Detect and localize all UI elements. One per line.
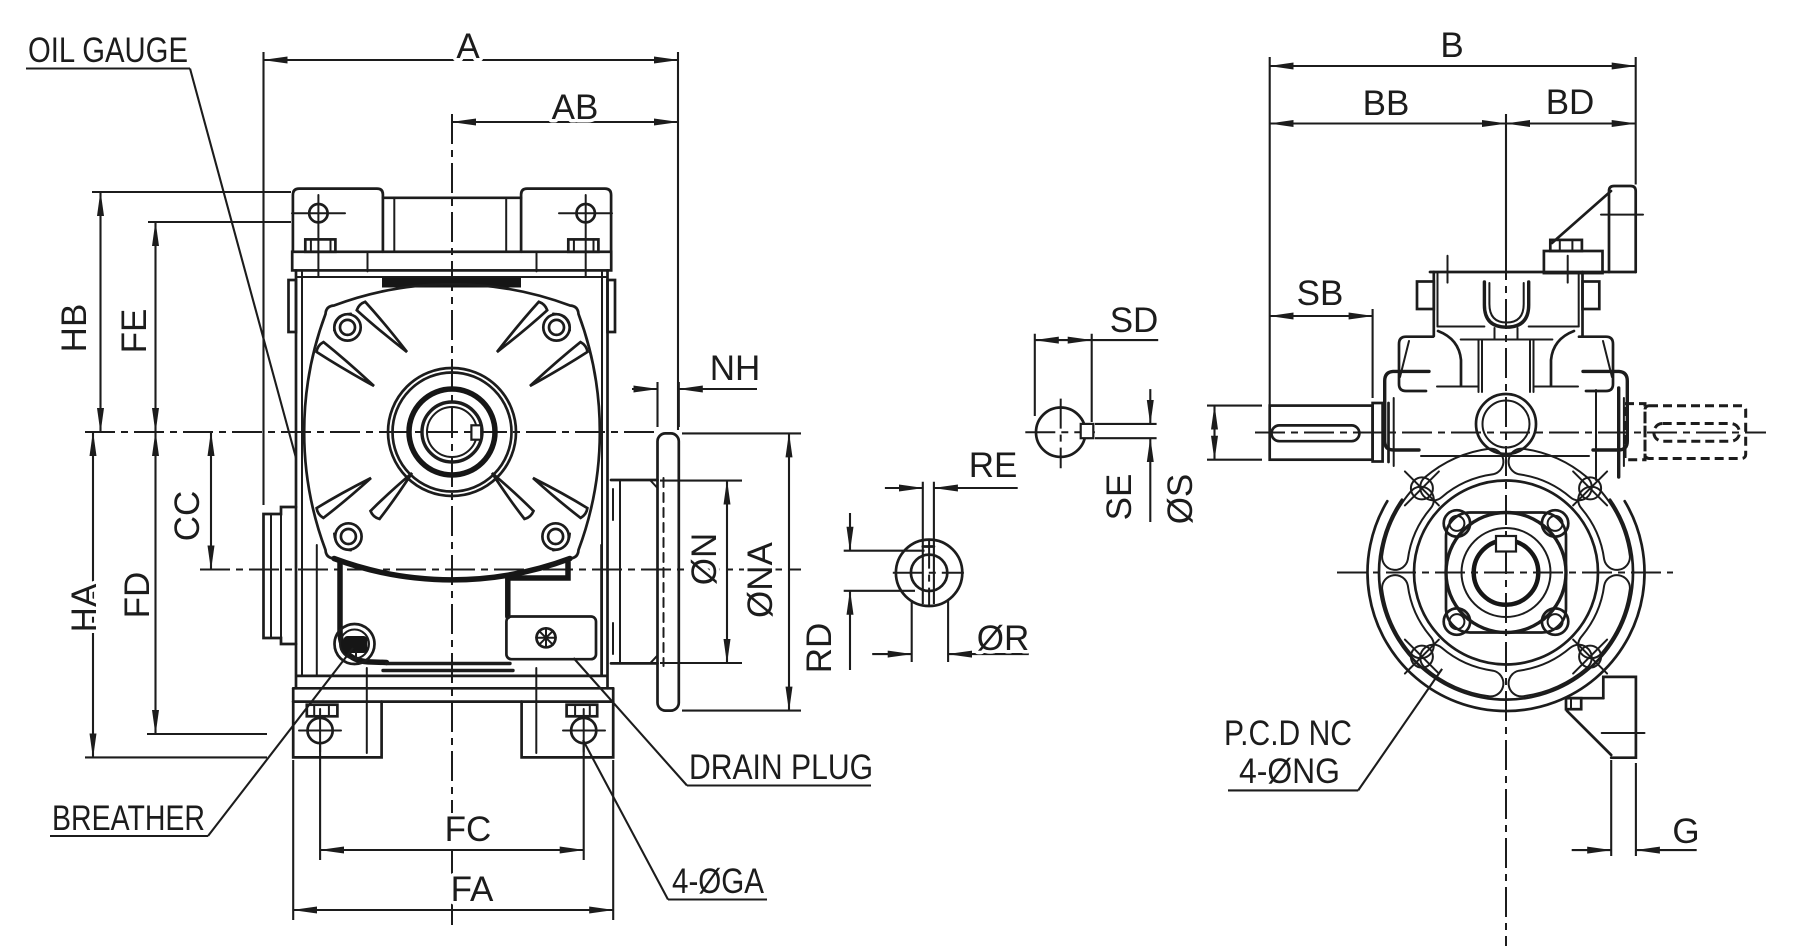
- top flange plate: [292, 252, 611, 272]
- svg-text:RD: RD: [800, 623, 839, 674]
- dimension ØS: [1161, 406, 1262, 525]
- dimension FC: [320, 742, 584, 860]
- svg-text:ØN: ØN: [685, 533, 724, 586]
- output flange plate (side): [658, 433, 679, 710]
- input bushing circle: [422, 402, 482, 462]
- housing bottom edge: [297, 675, 607, 678]
- oil cap boss (shield): [1484, 282, 1528, 327]
- optional input shaft (right, dashed): [1625, 404, 1746, 460]
- right foot: [522, 702, 614, 758]
- svg-text:A: A: [456, 27, 480, 66]
- right wall tab: [608, 280, 616, 332]
- svg-text:NH: NH: [710, 349, 761, 388]
- side housing left lobes: [1385, 337, 1433, 466]
- svg-text:BB: BB: [1363, 84, 1410, 123]
- input shaft collar: [1373, 403, 1383, 462]
- cover corner inner line upper-right: [553, 314, 570, 331]
- top mounting bracket flag: [1552, 186, 1643, 272]
- housing left wall: [296, 270, 302, 688]
- output hub inner circle: [1462, 528, 1551, 617]
- output shaft section outer circle: [896, 540, 962, 606]
- label P.C.D NC / 4-ØNG with leader: [1224, 669, 1442, 791]
- nut on right foot: [567, 705, 598, 717]
- svg-text:BD: BD: [1546, 83, 1595, 122]
- svg-text:SB: SB: [1297, 274, 1344, 313]
- output shaft bore circle: [911, 555, 947, 591]
- cover bolt upper-left: [334, 314, 360, 340]
- dimension SD: [1035, 301, 1159, 422]
- top bracket bolt pad: [1544, 240, 1603, 273]
- input axis centerline, side view: [1255, 432, 1766, 434]
- hub outer ring: [388, 368, 516, 496]
- rib blade upper-right inner: [497, 302, 547, 352]
- svg-text:P.C.D NC: P.C.D NC: [1224, 714, 1352, 753]
- cover bottom edge (heavy): [334, 559, 570, 580]
- dimension HB (left vertical): [55, 192, 291, 432]
- svg-text:HA: HA: [65, 583, 104, 632]
- svg-text:SD: SD: [1110, 301, 1159, 340]
- case bottom recess double line: [383, 664, 513, 671]
- svg-text:RE: RE: [969, 446, 1018, 485]
- svg-text:FD: FD: [118, 572, 157, 619]
- left foot: [293, 702, 381, 758]
- vertical centerline, side view: [1505, 250, 1507, 946]
- dimension CC: [168, 432, 211, 570]
- right foot bolt hole: [563, 709, 605, 752]
- dimension SB: [1270, 274, 1373, 398]
- flange fixing hole marks 4-ØNG: [1405, 471, 1607, 673]
- oil gauge boss: [264, 507, 297, 644]
- dimension HA: [65, 432, 267, 757]
- rib blade upper-left outer: [317, 342, 375, 386]
- input axis centerline, front view: [85, 431, 660, 433]
- side wall tab right: [1583, 282, 1600, 310]
- left foot bolt hole: [299, 709, 341, 752]
- bottom mounting bracket (side): [1565, 677, 1645, 758]
- svg-text:BREATHER: BREATHER: [52, 799, 205, 838]
- svg-text:ØS: ØS: [1161, 474, 1200, 525]
- housing right wall: [602, 270, 608, 688]
- label OIL GAUGE with leader: [26, 31, 296, 458]
- drain plug boss: [506, 617, 596, 660]
- flange rim circle: [1379, 500, 1633, 700]
- nut on left foot: [307, 705, 338, 717]
- nut under right ear: [568, 239, 598, 251]
- rib blade upper-right outer: [530, 342, 588, 386]
- top middle section: [383, 198, 521, 252]
- left wall tab: [289, 280, 297, 332]
- output bore keyway: [1496, 536, 1516, 552]
- dimension B: [1270, 26, 1636, 406]
- left top ear with bolt hole: [292, 189, 383, 277]
- output hub circle: [1446, 513, 1566, 633]
- dimension RE: [885, 446, 1018, 488]
- cover bolt lower-right: [542, 523, 568, 549]
- dimension ØR: [872, 600, 1029, 662]
- dimension NH: [632, 349, 760, 427]
- svg-text:SE: SE: [1100, 474, 1139, 521]
- output flange outer circle: [1368, 501, 1645, 711]
- vertical centerline, front view: [451, 114, 453, 925]
- hub square plate: [1446, 513, 1566, 633]
- cover corner inner line lower-right: [553, 534, 570, 551]
- svg-text:OIL GAUGE: OIL GAUGE: [28, 31, 188, 70]
- svg-text:HB: HB: [55, 304, 94, 353]
- dimension FE: [115, 222, 291, 432]
- input key square: [1081, 424, 1094, 438]
- joint line under cap: [1438, 327, 1579, 340]
- rib blade lower-right outer: [533, 478, 587, 518]
- side housing waist: [1437, 331, 1578, 392]
- breather plug: [335, 624, 375, 664]
- output axis centerline, front view: [200, 569, 801, 571]
- svg-text:DRAIN PLUG: DRAIN PLUG: [689, 748, 873, 787]
- side view housing top edge: [1430, 271, 1636, 274]
- rib blade upper-left inner: [357, 302, 407, 352]
- dimension SE: [1095, 389, 1157, 522]
- svg-text:4-ØNG: 4-ØNG: [1239, 752, 1340, 791]
- dimension AB: [452, 88, 678, 127]
- side housing left wall: [1434, 272, 1438, 336]
- svg-text:4-ØGA: 4-ØGA: [672, 862, 765, 901]
- svg-text:B: B: [1440, 26, 1463, 65]
- rib blade lower-left outer: [317, 478, 371, 518]
- drain plug: [536, 628, 556, 648]
- cover bolt lower-left: [335, 523, 361, 549]
- nut under left ear: [305, 239, 335, 251]
- svg-text:ØR: ØR: [977, 619, 1030, 658]
- dimension ØN: [660, 481, 742, 663]
- svg-text:AB: AB: [552, 88, 599, 127]
- base plate: [293, 688, 613, 701]
- rib blade lower-left inner: [371, 473, 413, 519]
- svg-text:ØNA: ØNA: [741, 541, 780, 618]
- output hub (side profile): [611, 480, 658, 663]
- case lower-left heavy corner: [340, 562, 387, 663]
- bearing bore circle (heavy): [409, 389, 495, 475]
- case lower-right heavy step: [508, 562, 568, 617]
- housing top edge: [296, 276, 608, 278]
- case neck hidden lines: [367, 668, 537, 753]
- side housing bottom front edge: [1421, 455, 1589, 457]
- cover corner inner line upper-left: [334, 314, 351, 331]
- input section crosshair: [1025, 399, 1095, 469]
- label BREATHER with leader: [50, 648, 353, 838]
- lower case side walls: [317, 545, 601, 676]
- svg-text:FA: FA: [451, 870, 494, 909]
- flange bolts: [1444, 510, 1569, 635]
- side housing right lobes: [1579, 337, 1627, 480]
- dimension BD: [1506, 83, 1636, 250]
- side wall tab left: [1417, 282, 1434, 310]
- dimension G: [1572, 760, 1700, 856]
- dimension RD: [800, 513, 925, 673]
- dimension FA: [293, 760, 613, 920]
- output keyway lines: [923, 482, 934, 604]
- flange hidden bolt line: [663, 478, 665, 666]
- input shaft (left extension): [1270, 406, 1373, 460]
- output axis centerline, side view: [1337, 572, 1673, 574]
- rib blade lower-right inner: [492, 473, 534, 519]
- input shaft section circle: [1036, 408, 1085, 457]
- output section crosshair: [893, 539, 964, 607]
- svg-text:FE: FE: [115, 309, 154, 354]
- dimension FD: [118, 432, 267, 734]
- input bore circle: [427, 407, 477, 457]
- flange slots: [1382, 449, 1630, 697]
- input bore keyway: [471, 425, 481, 439]
- cover corner inner line lower-left: [334, 534, 351, 551]
- svg-text:FC: FC: [445, 810, 492, 849]
- label DRAIN PLUG with leader: [574, 658, 874, 787]
- cover outline (rounded-square cover): [304, 284, 600, 580]
- side housing right wall: [1579, 272, 1583, 336]
- side view top hole ticks: [1448, 256, 1568, 283]
- flange face circle: [1414, 481, 1598, 665]
- output bore (heavy): [1474, 540, 1539, 605]
- worm bearing boss circle: [1476, 394, 1536, 454]
- svg-text:CC: CC: [168, 491, 207, 542]
- dimension A (overall width, top): [264, 27, 679, 505]
- right top ear with bolt hole: [521, 189, 612, 277]
- svg-text:G: G: [1672, 812, 1699, 851]
- dimension BB: [1270, 84, 1506, 124]
- dark recess band under top plate: [383, 279, 520, 287]
- label 4-ØGA with leader: [583, 740, 767, 901]
- cover bolt upper-right: [543, 314, 569, 340]
- dimension ØNA: [682, 433, 801, 710]
